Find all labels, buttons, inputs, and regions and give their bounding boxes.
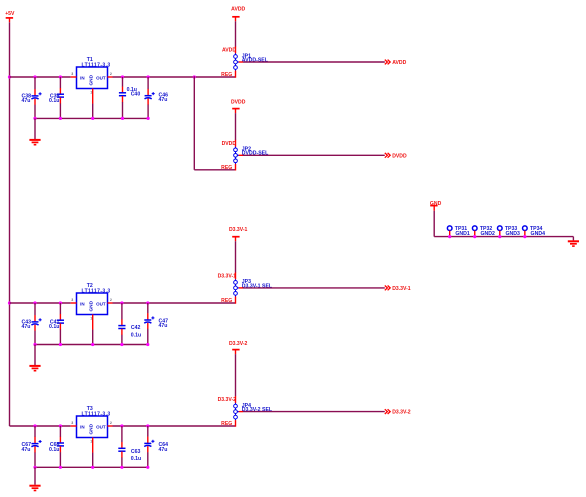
wire D3.3V-2 power to JP4 pin1 (235, 350, 237, 355)
capacitor C43 (21, 303, 41, 345)
wire JP3 pin3 to regulator (235, 296, 237, 303)
wire DVDD power to JP2 pin1 (235, 109, 237, 114)
svg-text:1: 1 (90, 440, 92, 444)
off-page connector DVDD (385, 153, 407, 159)
wire ground rail T3 (35, 466, 148, 468)
wire GND stub (433, 206, 435, 211)
wire ground rail T2 (35, 344, 148, 346)
node T1 output tee junction (193, 75, 196, 78)
svg-text:IN: IN (80, 302, 85, 307)
svg-text:0.1u: 0.1u (49, 447, 59, 453)
svg-text:0.1u: 0.1u (131, 333, 141, 339)
wire left vertical rail +5V (9, 22, 11, 426)
svg-text:47u: 47u (21, 324, 30, 330)
wire ground stub T3 (34, 467, 36, 485)
ground at GND rail end (568, 241, 579, 246)
capacitor C64 (144, 426, 168, 467)
svg-text:47u: 47u (21, 447, 30, 453)
svg-text:0.1u: 0.1u (49, 324, 59, 330)
svg-text:47u: 47u (159, 97, 168, 103)
junction left rail at T2 input (8, 301, 11, 304)
node input junctions T2 (33, 301, 62, 304)
svg-text:+5V: +5V (5, 11, 15, 17)
jumper JP1 3-pin header (234, 53, 269, 70)
svg-text:OUT: OUT (96, 76, 106, 81)
ground under T3 (29, 486, 40, 491)
node input junctions T3 (33, 424, 62, 427)
capacitor C39 (49, 77, 64, 118)
wire ground rail T1 (35, 117, 148, 119)
wire JP4 pin2 to off-page D3.3V-2 (239, 411, 243, 413)
power symbol D3.3V-1 above JP3 (229, 227, 248, 237)
svg-text:REG: REG (221, 421, 232, 427)
node output junctions T2 (120, 301, 149, 304)
svg-text:DVDD: DVDD (392, 153, 407, 159)
node ground rail junctions T1 (33, 117, 149, 120)
wire ground stub T1 (34, 118, 36, 139)
junction TP34 on GND rail (523, 235, 526, 238)
svg-text:IN: IN (80, 425, 85, 430)
svg-text:REG: REG (221, 298, 232, 304)
node ground rail junctions T3 (33, 466, 149, 469)
svg-text:OUT: OUT (96, 425, 106, 430)
node ground rail junctions T2 (33, 343, 149, 346)
svg-text:GND3: GND3 (506, 231, 521, 237)
svg-text:1: 1 (90, 91, 92, 95)
svg-text:AVDD: AVDD (222, 48, 236, 54)
svg-text:D3.3V-2: D3.3V-2 (229, 341, 248, 347)
svg-text:IN: IN (80, 76, 85, 81)
svg-text:DVDD: DVDD (231, 100, 246, 106)
svg-text:0.1u: 0.1u (131, 456, 141, 462)
power symbol AVDD above JP1 (231, 7, 245, 17)
node input junctions T1 (33, 75, 62, 78)
svg-text:3: 3 (71, 421, 73, 425)
wire JP1 pin2 to off-page AVDD (239, 61, 243, 63)
capacitor C41 (49, 303, 64, 345)
svg-text:GND1: GND1 (455, 231, 470, 237)
capacitor C46 (145, 77, 169, 118)
wire GND rail (433, 211, 435, 237)
svg-text:GND: GND (88, 423, 94, 434)
jumper JP4 3-pin header (234, 403, 273, 420)
wire JP2 pin2 to off-page DVDD (239, 154, 243, 156)
wire JP4 pin3 to regulator (235, 420, 237, 427)
svg-text:3: 3 (71, 298, 73, 302)
svg-text:47u: 47u (159, 323, 168, 329)
svg-text:GND: GND (430, 201, 442, 207)
svg-text:D3.3V-1: D3.3V-1 (229, 227, 248, 233)
regulator T2 LT1117-3.3 (71, 283, 113, 345)
wire input rail T1 (10, 76, 71, 78)
capacitor C42 (118, 303, 141, 345)
svg-text:GND4: GND4 (531, 231, 546, 237)
svg-text:DVDD: DVDD (222, 141, 237, 147)
svg-text:D3.3V-1: D3.3V-1 (392, 286, 411, 292)
svg-text:0.1u: 0.1u (49, 98, 59, 104)
power symbol GND (430, 201, 442, 207)
svg-text:OUT: OUT (96, 302, 106, 307)
wire output rail T3 (113, 425, 236, 427)
ground under T1 (29, 140, 40, 145)
capacitor C47 (144, 303, 168, 345)
test point TP33 GND3 (498, 226, 521, 237)
capacitor C38 (21, 77, 41, 118)
wire JP3 pin2 to off-page D3.3V-1 (239, 287, 243, 289)
svg-text:2: 2 (110, 421, 112, 425)
off-page connector AVDD (385, 60, 407, 66)
wire AVDD power to JP1 pin1 (235, 17, 237, 22)
test point TP34 GND4 (523, 226, 546, 237)
ground under T2 (29, 366, 40, 371)
svg-text:D3.3V-1: D3.3V-1 (218, 273, 237, 279)
junction left rail at T1 input (8, 75, 11, 78)
wire D3.3V-1 power to JP3 pin1 (235, 237, 237, 242)
svg-text:GND2: GND2 (480, 231, 495, 237)
wire T1 out down to JP2 (193, 76, 195, 170)
wire input rail T2 (10, 302, 71, 304)
svg-text:LT1117-3.3: LT1117-3.3 (82, 62, 111, 68)
capacitor C40 (119, 77, 140, 118)
svg-text:47u: 47u (159, 447, 168, 453)
svg-text:2: 2 (110, 72, 112, 76)
power symbol +5V (5, 11, 15, 18)
test point TP32 GND2 (472, 226, 495, 237)
svg-text:LT1117-3.3: LT1117-3.3 (82, 411, 111, 417)
regulator T1 LT1117-3.3 (71, 57, 113, 118)
off-page connector D3.3V-1 (385, 286, 411, 292)
svg-text:2: 2 (110, 298, 112, 302)
svg-text:3: 3 (71, 72, 73, 76)
svg-text:D3.3V-2: D3.3V-2 (392, 410, 411, 416)
off-page connector D3.3V-2 (385, 409, 411, 415)
capacitor C67 (21, 426, 41, 467)
node output junctions T1 (121, 75, 150, 78)
power symbol DVDD above JP2 (231, 100, 246, 109)
node output junctions T3 (120, 424, 149, 427)
svg-text:LT1117-3.3: LT1117-3.3 (82, 288, 111, 294)
wire output rail T1 (113, 76, 236, 78)
svg-text:1: 1 (90, 317, 92, 321)
wire JP2 pin3 to regulator (235, 164, 237, 171)
regulator T3 LT1117-3.3 (71, 406, 113, 467)
svg-text:D3.3V-2: D3.3V-2 (218, 397, 237, 403)
svg-text:C42: C42 (131, 325, 141, 331)
wire +5V stub (9, 18, 11, 22)
svg-text:GND: GND (88, 300, 94, 311)
capacitor C68 (49, 426, 64, 467)
svg-text:C40: C40 (131, 91, 141, 97)
power symbol D3.3V-2 above JP4 (229, 341, 248, 350)
jumper JP3 3-pin header (234, 279, 273, 296)
junction TP31 on GND rail (448, 235, 451, 238)
test point TP31 GND1 (447, 226, 470, 237)
wire JP1 pin3 to regulator (235, 71, 237, 78)
wire input rail T3 (10, 425, 71, 427)
svg-text:AVDD: AVDD (392, 60, 406, 66)
jumper JP2 3-pin header (234, 147, 269, 164)
svg-text:REG: REG (221, 165, 232, 171)
wire output rail T2 (113, 302, 236, 304)
junction TP32 on GND rail (473, 235, 476, 238)
svg-text:C63: C63 (131, 449, 141, 455)
wire ground stub T2 (34, 345, 36, 366)
svg-text:47u: 47u (21, 98, 30, 104)
capacitor C63 (118, 426, 141, 467)
junction TP33 on GND rail (498, 235, 501, 238)
svg-text:AVDD: AVDD (231, 7, 245, 13)
svg-text:GND: GND (88, 74, 94, 85)
svg-text:REG: REG (221, 72, 232, 78)
